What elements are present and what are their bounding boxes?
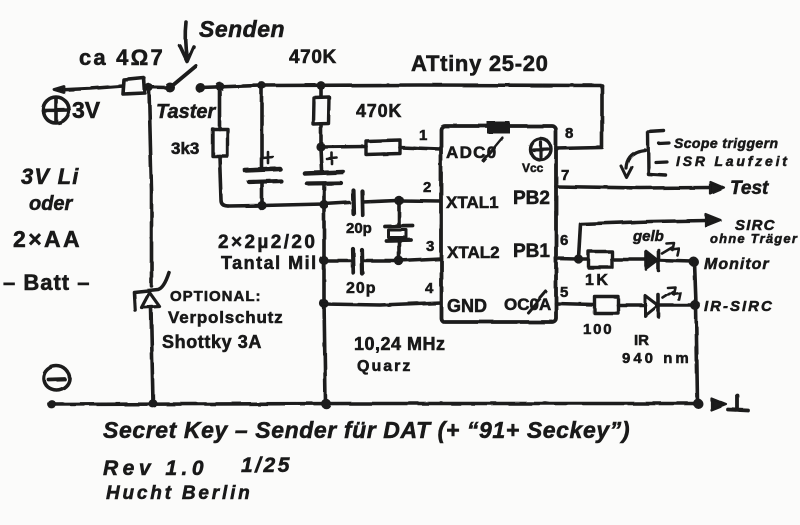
svg-text:10,24 MHz: 10,24 MHz [354,334,446,354]
wire R4 to IC pin 1 [400,148,441,150]
svg-text:470K: 470K [289,47,337,68]
wire rail to R3 [319,87,323,97]
wire C1 top lead [260,87,264,168]
LED D3 cathode bar [657,295,661,317]
wire pin 6 stub [556,257,577,261]
battery minus symbol bar [49,377,65,381]
node junction ground line / GND row [319,299,328,308]
svg-text:2×AA: 2×AA [13,226,82,252]
OC0A slash [528,292,546,313]
svg-text:PB1: PB1 [513,241,550,262]
wire crystal node to IC pin 2 [399,199,441,203]
wire C3 to crystal node [363,201,398,203]
wire R3 to node [319,124,323,146]
wire pin 6 up and right to SIRC arrow [579,221,708,259]
svg-text:5: 5 [560,284,568,301]
svg-text:Quarz: Quarz [357,358,412,375]
resistor R1 ca 4R7 body [123,78,145,94]
scope note bracket [648,131,666,176]
svg-text:Vcc: Vcc [522,161,544,175]
svg-text:ca 4Ω7: ca 4Ω7 [79,45,165,70]
crystal Q1 bottom plate [386,238,411,242]
node junction pin 6 [574,254,583,263]
node junction to R3 470K vertical [317,81,326,90]
node junction Monitor [689,257,699,267]
node junction R3/C2/R4 [316,142,325,151]
svg-text:ATtiny 25-20: ATtiny 25-20 [411,51,549,76]
svg-text:Scope triggern: Scope triggern [674,135,778,151]
wire junction down to schottky diode [149,89,152,286]
wire Monitor node down to IR-SIRC node [695,262,697,304]
wire D3 to IR-SIRC node [659,304,694,308]
capacitor C2 plus sign [327,153,337,164]
capacitor C3 20p left plate [351,190,356,214]
svg-text:8: 8 [565,125,573,142]
wire R1 to switch [145,85,166,89]
svg-text:3: 3 [426,238,434,255]
capacitor C3 20p right plate [360,191,365,215]
switch S1 Taster pole dot [165,83,175,93]
scope note curved arrow [626,150,645,168]
svg-text:Hucht Berlin: Hucht Berlin [106,483,253,504]
svg-text:4: 4 [425,280,434,297]
wire pin 5 to resistor R6 100 [556,304,594,305]
svg-text:Verpolschutz: Verpolschutz [168,308,283,327]
wire D2 to Monitor node [659,261,694,262]
svg-text:XTAL2: XTAL2 [447,243,500,262]
wire mid horizontal node row to XTAL1 cap [228,203,349,207]
svg-text:Tantal Mil: Tantal Mil [221,253,318,273]
svg-text:3V Li: 3V Li [21,164,80,189]
svg-text:6: 6 [560,232,568,249]
svg-text:7: 7 [561,167,569,184]
Vcc symbol circle inside U1 [530,139,551,160]
scope note arrowhead [621,166,632,178]
svg-text:2: 2 [423,179,431,196]
capacitor C1 plus sign [263,152,273,163]
wire IR-SIRC node down to ground rail [696,306,698,404]
LED D2 gelb triangle [646,251,658,270]
ADC0 slash [483,138,502,161]
svg-text:20p: 20p [346,280,377,297]
resistor R6 100 body [595,297,619,314]
svg-text:1K: 1K [585,272,610,289]
node junction crystal top [394,196,404,206]
wire R5 to LED D2 [612,258,646,262]
svg-text:– Batt –: – Batt – [3,270,90,295]
resistor R2 3k3 body [213,129,228,156]
ground symbol [728,396,748,411]
node junction C1 bottom [257,201,266,210]
resistor R3 470K body [313,97,329,124]
Senden arrow shaft [185,22,187,58]
svg-text:2×2µ2/20: 2×2µ2/20 [218,232,317,253]
wire crystal node to IC pin 3 [399,259,441,261]
resistor R5 1K body [589,252,613,268]
capacitor C4 20p right plate [360,250,365,274]
wire schottky to ground rail [151,308,153,404]
Vcc symbol cross [533,142,548,157]
op-amp U1 ATtiny25 box [441,126,556,322]
node junction schottky/ground rail [149,399,158,408]
switch S1 contact dot [195,83,205,93]
wire R4 470K horizontal to pin1 [321,145,366,149]
Test arrowhead [710,182,724,194]
capacitor C4 20p left plate [351,249,356,273]
svg-text:470K: 470K [356,101,402,121]
LED D3 emission arrow [663,287,680,300]
wire crystal top lead [397,201,401,225]
svg-text:oder: oder [29,193,74,215]
wire crystal bottom lead [397,241,401,260]
node junction ground line/ground rail [321,399,331,409]
wire to resistor R2 3k3 [218,88,222,129]
switch S1 lever [172,66,196,86]
svg-text:OPTIONAL:: OPTIONAL: [170,288,262,305]
LED D2 emission arrow [662,243,679,256]
node junction to C1 [258,82,266,90]
ground rail left terminal dot [48,400,57,409]
wire C1 bottom lead [260,183,264,205]
svg-text:3k3: 3k3 [171,139,199,158]
node junction to R2 3k3 [216,82,225,91]
svg-text:940 nm: 940 nm [622,350,692,367]
Senden arrowhead [180,46,194,62]
wire C2 bottom ground line down [324,184,326,403]
svg-text:1/25: 1/25 [241,454,292,477]
ground rail wire [51,404,698,405]
svg-text:Rev 1.0: Rev 1.0 [103,457,208,480]
svg-text:1: 1 [419,127,427,144]
svg-text:Senden: Senden [199,16,285,42]
svg-text:GND: GND [447,296,487,316]
LED D3 IR triangle [645,296,658,317]
svg-text:PB2: PB2 [513,188,550,209]
crystal Q1 top plate [385,224,413,228]
battery minus symbol circle [44,366,70,390]
svg-text:ISR Laufzeit: ISR Laufzeit [676,153,790,169]
resistor R4 470K body [366,140,400,155]
svg-text:XTAL1: XTAL1 [446,193,499,212]
svg-text:ohne Träger: ohne Träger [710,231,798,246]
capacitor C1 top plate [245,169,280,171]
svg-text:3V: 3V [72,97,101,123]
top supply rail wire [200,85,602,88]
svg-text:IR-SIRC: IR-SIRC [704,298,774,315]
LED D2 cathode bar [657,250,661,271]
node junction crystal bottom [394,256,404,266]
svg-text:OC0A: OC0A [504,295,551,314]
capacitor C2 bottom plate [307,181,341,186]
node junction ground line / XTAL1 row [319,200,328,209]
crystal Q1 body [389,230,407,238]
schottky diode D1 cathode bar [134,273,169,311]
svg-text:20p: 20p [346,220,372,237]
node junction under R1 [145,83,153,91]
wire pin 7 to Test arrow [556,187,711,189]
node junction IR line/ground rail [693,399,703,409]
wire C4 to crystal bottom node [363,259,397,263]
svg-text:Taster: Taster [156,101,217,123]
svg-text:Secret Key – Sender für DAT (+: Secret Key – Sender für DAT (+ “91+ Seck… [103,417,630,443]
schottky diode D1 triangle [142,293,160,308]
battery plus symbol circle [43,97,69,123]
svg-text:100: 100 [583,321,613,338]
svg-text:Monitor: Monitor [704,256,770,273]
SIRC arrowhead [706,215,721,227]
capacitor C2 top plate [305,172,343,174]
battery plus symbol cross [43,99,69,123]
wire R6 to LED D3 [618,303,645,307]
svg-text:ADC0: ADC0 [446,143,498,162]
wire ground node to IC pin 4 [324,303,441,306]
capacitor C1 bottom plate [249,181,281,182]
wire ground line to C4 [324,259,350,263]
svg-text:Test: Test [730,178,769,199]
svg-text:gelb: gelb [632,228,664,245]
wire pin 8 from rail [556,86,602,149]
ground rail arrowhead [711,398,726,410]
wire battery plus to resistor R1 [58,86,123,90]
wire node to resistor R5 1K [579,257,589,261]
svg-text:Shottky 3A: Shottky 3A [162,332,262,352]
U1 pin1 notch mark [487,122,510,134]
node junction ground line / XTAL2 row [319,256,328,265]
svg-text:IR: IR [634,332,649,349]
wire R2 bottom to node row [220,156,229,206]
scope note dash 2 [656,160,667,164]
battery plus terminal dot [54,87,64,93]
wire C2 top lead [321,148,322,170]
scope note dash 1 [659,141,669,145]
node junction IR-SIRC [691,301,701,311]
